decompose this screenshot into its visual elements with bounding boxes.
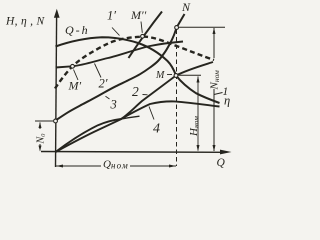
circle N0 on axis bbox=[54, 119, 58, 123]
y-axis bbox=[56, 18, 57, 168]
N0 dimension vertical with arrows bbox=[39, 123, 41, 130]
H_nom vertical dimension bbox=[197, 77, 199, 151]
N_nom horizontal line from N point bbox=[179, 26, 225, 28]
svg-text:2: 2 bbox=[132, 84, 139, 99]
curve 1 (dome through M to tail) bbox=[56, 37, 220, 103]
svg-text:2′: 2′ bbox=[99, 77, 108, 91]
svg-text:M: M bbox=[155, 70, 165, 81]
svg-text:4: 4 bbox=[153, 122, 160, 137]
circle N top bbox=[175, 26, 179, 30]
H_nom horizontal from M bbox=[179, 74, 202, 76]
svg-text:Q-h: Q-h bbox=[65, 23, 90, 37]
svg-text:Q: Q bbox=[217, 157, 226, 169]
circle M' bbox=[71, 64, 75, 68]
dashed network curve Q-h bbox=[55, 37, 214, 89]
svg-text:1′: 1′ bbox=[107, 9, 116, 23]
circle M bbox=[174, 74, 178, 78]
vertical dashed line at Q_nom bbox=[176, 30, 178, 167]
second stroke of bundle continuing after pinch bbox=[121, 116, 140, 119]
svg-text:Qном: Qном bbox=[103, 159, 129, 171]
N line overshoot to label bbox=[177, 14, 185, 28]
circle M'' bbox=[141, 34, 145, 38]
svg-text:3: 3 bbox=[110, 98, 117, 112]
x-axis bbox=[41, 151, 225, 154]
curve 2' bbox=[56, 42, 184, 68]
svg-text:N: N bbox=[181, 0, 191, 14]
steep line through M'' bbox=[129, 12, 163, 59]
svg-text:M′′: M′′ bbox=[130, 8, 147, 22]
svg-text:η: η bbox=[224, 94, 230, 108]
Q_nom dimension under axis bbox=[56, 165, 101, 167]
curve 3 (power N) bbox=[56, 28, 177, 121]
N0 dimension: tick from circle bbox=[35, 120, 53, 122]
curve 4 (efficiency eta) bbox=[56, 101, 220, 152]
svg-text:H, η , N: H, η , N bbox=[5, 16, 45, 28]
N_nom vertical dimension line bbox=[213, 28, 215, 58]
curve 2 (from origin through M) bbox=[56, 62, 214, 152]
svg-text:M′: M′ bbox=[68, 79, 82, 93]
